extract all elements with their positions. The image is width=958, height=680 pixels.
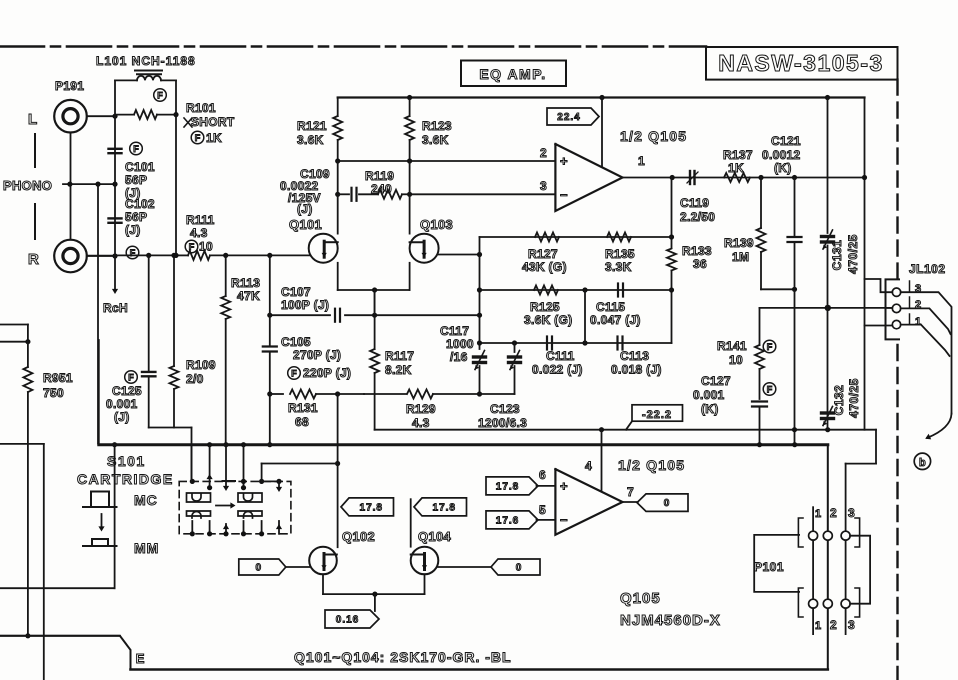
svg-text:R: R xyxy=(28,251,39,268)
JL102 cable wires to arrow xyxy=(901,292,952,413)
svg-text:C123: C123 xyxy=(490,402,520,416)
svg-text:0.047 (J): 0.047 (J) xyxy=(590,313,641,327)
svg-text:C125: C125 xyxy=(112,384,142,398)
svg-text:R133: R133 xyxy=(682,244,712,258)
svg-text:0.0012: 0.0012 xyxy=(762,148,801,162)
svg-text:P191: P191 xyxy=(55,79,84,93)
svg-text:(J): (J) xyxy=(125,223,141,237)
wire ground drop from phono xyxy=(97,184,99,443)
svg-text:C131: C131 xyxy=(830,240,844,271)
svg-text:1M: 1M xyxy=(732,250,749,264)
resistor R101 SHORT (F)1K xyxy=(115,114,134,116)
cable arrow xyxy=(927,414,951,438)
svg-text:R139: R139 xyxy=(724,236,754,250)
flag 0.16 at source xyxy=(325,610,379,628)
svg-text:3.6K: 3.6K xyxy=(297,133,324,147)
svg-text:1K: 1K xyxy=(728,161,744,175)
svg-text:C113: C113 xyxy=(620,349,649,363)
svg-text:1200/6.3: 1200/6.3 xyxy=(478,416,527,430)
switch S101 dashed body xyxy=(179,481,291,533)
svg-text:EQ AMP.: EQ AMP. xyxy=(479,66,546,82)
svg-text:0.16: 0.16 xyxy=(336,615,359,626)
resistor R131 68 xyxy=(270,393,283,395)
svg-text:22.4: 22.4 xyxy=(557,112,580,123)
svg-text:17.6: 17.6 xyxy=(496,516,519,527)
wire ladder middle rail xyxy=(480,289,672,291)
svg-text:17.8: 17.8 xyxy=(360,503,383,514)
svg-text:0.018 (J): 0.018 (J) xyxy=(611,363,662,377)
svg-text:R111: R111 xyxy=(186,213,215,227)
svg-text:1/2 Q105: 1/2 Q105 xyxy=(620,128,687,144)
icon arrow MC to MM xyxy=(101,514,103,528)
svg-text:1/2 Q105: 1/2 Q105 xyxy=(618,457,685,473)
svg-text:8.2K: 8.2K xyxy=(385,363,412,377)
svg-text:F: F xyxy=(157,90,163,100)
resistor R137 1K xyxy=(724,173,750,182)
wire L jack to node xyxy=(87,115,115,117)
svg-text:2.2/50: 2.2/50 xyxy=(680,210,715,224)
wire R101 node down to R111 line xyxy=(175,115,177,255)
wire op-amp pin3 line xyxy=(410,193,556,195)
svg-text:/16: /16 xyxy=(450,350,468,364)
wire bottom rail xyxy=(131,668,828,671)
wire jack column xyxy=(70,133,72,240)
capacitor C123 1200/6.3 electrolytic xyxy=(514,343,516,352)
svg-text:R951: R951 xyxy=(43,371,73,385)
wire Q103 source xyxy=(409,263,411,290)
svg-text:C127: C127 xyxy=(701,374,731,388)
label F circled (L101) xyxy=(154,89,167,102)
switch selector arrow xyxy=(216,505,232,507)
svg-text:MM: MM xyxy=(134,540,159,556)
wire feed pin2 (at y 307.9 handled) xyxy=(886,307,893,309)
svg-text:NASW-3105-3: NASW-3105-3 xyxy=(718,50,884,76)
wire ladder left column xyxy=(479,237,481,349)
svg-text:36: 36 xyxy=(693,257,707,271)
svg-text:F: F xyxy=(189,242,195,252)
wire ladder right column from output xyxy=(671,178,673,249)
svg-text:220P (J): 220P (J) xyxy=(303,366,351,380)
resistor R119 240 xyxy=(378,190,402,199)
flag 17.8 at Q104 drain xyxy=(414,498,467,516)
svg-text:−: − xyxy=(560,513,568,528)
svg-text:10: 10 xyxy=(199,240,213,254)
svg-text:L101 NCH-1188: L101 NCH-1188 xyxy=(96,54,196,68)
flag -22.2 supply xyxy=(632,405,683,421)
svg-text:3.6K: 3.6K xyxy=(422,133,449,147)
resistor R113 47K xyxy=(225,255,227,296)
wire op-amp pin2 line xyxy=(338,160,556,162)
wire left stub lower xyxy=(0,635,120,637)
svg-text:Q104: Q104 xyxy=(418,529,451,544)
capacitor C132 470/25 electrolytic xyxy=(822,411,834,414)
svg-text:0.001: 0.001 xyxy=(106,397,138,411)
svg-text:5: 5 xyxy=(539,503,546,517)
svg-text:6: 6 xyxy=(539,468,546,482)
wire Q101 drain column xyxy=(337,161,339,234)
svg-text:R125: R125 xyxy=(530,300,560,314)
wire +22.4 supply rail xyxy=(338,96,865,98)
capacitor C119 2.2/50 series xyxy=(689,171,691,184)
wire Q104 gate xyxy=(438,566,491,568)
wire R jack to node xyxy=(87,255,115,257)
capacitor C127 0.001 (K) xyxy=(752,400,767,402)
svg-text:240: 240 xyxy=(371,182,392,196)
svg-text:F: F xyxy=(130,248,136,258)
svg-text:Q105: Q105 xyxy=(620,590,661,607)
svg-text:0.001: 0.001 xyxy=(693,388,725,402)
JL102 pin 1 xyxy=(892,320,900,328)
svg-text:Q101~Q104: 2SK170-GR. -BL: Q101~Q104: 2SK170-GR. -BL xyxy=(294,649,512,665)
op-amp2 supply feed from -22.2 xyxy=(601,430,603,491)
svg-text:0: 0 xyxy=(516,563,523,574)
wire ladder top rail xyxy=(480,236,672,238)
resistor R125 3.6K (G) xyxy=(534,286,558,295)
svg-text:750: 750 xyxy=(43,386,64,400)
svg-text:CARTRIDGE: CARTRIDGE xyxy=(77,471,174,487)
switch contact top-right xyxy=(238,493,262,502)
svg-text:(J): (J) xyxy=(297,202,313,216)
wire feed pin1 xyxy=(865,325,893,327)
switch contact bottom-left xyxy=(187,511,211,518)
resistor R133 36 xyxy=(667,249,676,271)
svg-text:56P: 56P xyxy=(125,173,147,187)
wire pin6 xyxy=(537,485,556,487)
resistor R127 43K (G) xyxy=(535,233,559,242)
resistor R141 10 xyxy=(759,308,761,345)
wire Q103 drain column xyxy=(409,161,411,234)
svg-text:1: 1 xyxy=(815,508,821,520)
svg-text:56P: 56P xyxy=(125,210,147,224)
wire Q102 drain drop with jog to S101 xyxy=(337,394,339,464)
svg-text:R135: R135 xyxy=(605,247,635,261)
svg-text:C105: C105 xyxy=(281,335,311,349)
capacitor C125 0.001 (J) xyxy=(148,255,150,372)
JL102 bracket xyxy=(886,279,900,339)
op-amp U1 1/2 Q105 (pins 2,3,1) xyxy=(555,144,622,211)
svg-text:(J): (J) xyxy=(114,410,130,424)
svg-text:R123: R123 xyxy=(422,119,452,133)
svg-text:17.8: 17.8 xyxy=(496,482,519,493)
svg-text:R117: R117 xyxy=(385,349,414,363)
JL102 pin 2 xyxy=(892,304,900,312)
JL102 pin 3 xyxy=(892,288,900,296)
svg-text:C107: C107 xyxy=(281,285,311,299)
label box EQ AMP. xyxy=(461,61,566,87)
wire pin5 xyxy=(537,519,556,521)
wire Q101 source xyxy=(337,263,339,290)
svg-text:3.3K: 3.3K xyxy=(605,260,632,274)
svg-text:R131: R131 xyxy=(288,401,318,415)
resistor R135 3.3K xyxy=(607,233,631,242)
svg-text:2/0: 2/0 xyxy=(186,372,204,386)
svg-text:C101: C101 xyxy=(125,160,155,174)
svg-text:MC: MC xyxy=(134,492,158,508)
svg-text:F: F xyxy=(195,133,201,143)
flag 17.8 at Q102 drain xyxy=(341,498,394,516)
switch feed wires from ground rail xyxy=(209,445,211,478)
svg-text:3: 3 xyxy=(848,618,855,632)
wire earth E step xyxy=(0,636,131,670)
flag 0 output xyxy=(637,494,688,512)
wire op-amp1 output xyxy=(623,177,865,179)
svg-text:F: F xyxy=(133,144,139,154)
svg-text:F: F xyxy=(767,384,773,394)
icon MM cartridge xyxy=(83,545,117,547)
switch bottom pins xyxy=(191,521,193,534)
wire Q104 drain stub xyxy=(410,499,412,547)
svg-text:Q102: Q102 xyxy=(342,529,375,544)
svg-text:R121: R121 xyxy=(297,119,327,133)
svg-text:1000: 1000 xyxy=(446,337,474,351)
svg-text:10: 10 xyxy=(729,353,743,367)
wire pin2/output line to JL102 xyxy=(760,307,894,309)
transistor Q104 2SK170 xyxy=(411,547,439,575)
op-amp supply feed xyxy=(601,98,603,167)
svg-text:−: − xyxy=(560,188,568,203)
svg-text:R129: R129 xyxy=(406,402,436,416)
svg-text:R119: R119 xyxy=(365,169,394,183)
svg-text:R101: R101 xyxy=(186,101,216,115)
svg-text:0.022 (J): 0.022 (J) xyxy=(532,363,583,377)
resistor R111 4.3 (F)10 xyxy=(176,254,188,256)
svg-text:1: 1 xyxy=(638,154,645,168)
svg-text:RcH: RcH xyxy=(103,301,128,315)
svg-text:100P (J): 100P (J) xyxy=(281,298,329,312)
net RcH xyxy=(114,256,116,291)
dashed board border right xyxy=(896,80,898,279)
svg-text:F: F xyxy=(767,342,773,352)
svg-text:43K (G): 43K (G) xyxy=(522,260,567,274)
capacitor C109 0.0022/125V xyxy=(338,193,349,195)
wire left stub upper xyxy=(0,443,44,445)
flag 0 at Q104 gate xyxy=(491,559,540,575)
wire ladder mid divider xyxy=(584,290,586,343)
wire left stub mid xyxy=(0,587,115,589)
svg-text:0: 0 xyxy=(256,563,263,574)
svg-text:R137: R137 xyxy=(723,148,753,162)
phono jack R xyxy=(54,240,87,273)
wire Q103 gate xyxy=(439,254,480,256)
capacitor C101 56P xyxy=(114,116,116,184)
svg-text:C115: C115 xyxy=(596,300,625,314)
wire R131 to R129 xyxy=(364,393,406,395)
svg-text:470/25: 470/25 xyxy=(847,378,861,418)
svg-text:1K: 1K xyxy=(206,131,222,145)
capacitor C105 270P/220P xyxy=(269,255,271,345)
svg-text:270P (J): 270P (J) xyxy=(293,348,341,362)
flag 0 at Q102 gate xyxy=(239,559,286,575)
svg-text:C117: C117 xyxy=(440,324,469,338)
svg-text:F: F xyxy=(291,368,297,378)
phono jack L xyxy=(54,100,87,133)
flag +22.4 supply xyxy=(547,108,599,125)
dashed board border top xyxy=(0,45,706,48)
switch contact bottom-right xyxy=(238,511,262,518)
wire -22.2 to P101 pin3 branch xyxy=(875,430,877,464)
svg-text:NJM4560D-X: NJM4560D-X xyxy=(620,612,721,629)
svg-text:C121: C121 xyxy=(771,134,801,148)
svg-text:68: 68 xyxy=(295,415,309,429)
svg-text:3: 3 xyxy=(915,283,921,295)
wire feed pin3 xyxy=(865,279,893,292)
wire ground rail right drop xyxy=(827,445,829,670)
capacitor C102 56P xyxy=(114,184,116,256)
resistor R139 1M xyxy=(760,178,762,229)
resistor R109 270 xyxy=(173,255,175,366)
wire right vertical feed xyxy=(864,98,866,430)
title block NASW-3105-3 xyxy=(706,47,898,80)
wire S101 feed left (R109/C125 node) xyxy=(191,445,193,482)
P101 right link xyxy=(850,536,870,604)
capacitor C107 100P (J) xyxy=(270,314,330,316)
wire Q102 gate xyxy=(286,566,309,568)
op-amp U2 1/2 Q105 (pins 5,6,7,4) xyxy=(555,469,622,535)
svg-text:2: 2 xyxy=(830,506,837,520)
svg-text:C119: C119 xyxy=(680,196,709,210)
svg-text:17.8: 17.8 xyxy=(433,503,456,514)
resistor R123 3.6K xyxy=(409,98,411,117)
switch right pole xyxy=(262,480,279,482)
transistor Q102 2SK170 xyxy=(309,547,337,575)
capacitor C121 0.0012 xyxy=(794,178,796,237)
svg-text:4.3: 4.3 xyxy=(190,226,208,240)
svg-text:3: 3 xyxy=(540,179,547,193)
wire R109 C125 to switch feed xyxy=(149,427,192,429)
wire differential tail xyxy=(338,289,410,291)
svg-text:R141: R141 xyxy=(717,339,747,353)
svg-text:7: 7 xyxy=(627,485,634,499)
capacitor C111 0.022 (J) xyxy=(546,337,548,350)
wire source join xyxy=(323,593,425,595)
P101 housing brackets xyxy=(798,518,803,547)
capacitor C113 0.018 (J) xyxy=(616,337,618,350)
svg-text:R109: R109 xyxy=(186,358,216,372)
svg-text:SHORT: SHORT xyxy=(191,115,235,129)
svg-text:2: 2 xyxy=(540,146,547,160)
svg-text:3.6K (G): 3.6K (G) xyxy=(524,313,572,327)
svg-text:0: 0 xyxy=(664,498,671,509)
P101 pin column 1 xyxy=(812,507,814,531)
flag 17.6 pin5 xyxy=(486,511,538,529)
svg-text:+: + xyxy=(560,479,568,494)
wire gate line (R input to Q101) xyxy=(87,255,115,257)
P101 pin column 2 (on ground drop) xyxy=(823,531,832,540)
svg-text:C102: C102 xyxy=(125,197,155,211)
wire ladder bottom rail xyxy=(480,342,672,344)
P101 pin column 3 xyxy=(841,531,850,540)
wire Q104 source xyxy=(424,574,426,594)
svg-text:470/25: 470/25 xyxy=(846,234,860,274)
phono channel dashes xyxy=(34,134,36,167)
capacitor C131 470/25 electrolytic xyxy=(827,98,829,234)
svg-text:P101: P101 xyxy=(754,560,784,574)
svg-text:C132: C132 xyxy=(832,385,846,416)
svg-text:2: 2 xyxy=(830,618,837,632)
resistor R117 8.2K xyxy=(374,290,376,349)
wire -22.2 supply rail xyxy=(375,429,876,431)
svg-text:4: 4 xyxy=(585,459,592,473)
resistor R951 750 xyxy=(0,324,28,326)
svg-text:(K): (K) xyxy=(774,161,792,175)
svg-text:F: F xyxy=(128,372,134,382)
svg-text:(K): (K) xyxy=(701,402,719,416)
label circled b xyxy=(914,453,930,469)
svg-text:R127: R127 xyxy=(528,247,558,261)
switch contact top-left xyxy=(187,493,211,502)
wire rail drop left xyxy=(114,444,116,589)
resistor R121 3.6K xyxy=(337,98,339,117)
svg-text:E: E xyxy=(136,651,145,666)
svg-text:+: + xyxy=(560,154,568,169)
wire Q102 source xyxy=(322,574,324,594)
svg-text:PHONO: PHONO xyxy=(3,178,52,193)
wire pin7 output xyxy=(623,501,638,503)
svg-text:1: 1 xyxy=(915,316,921,328)
svg-text:4.3: 4.3 xyxy=(412,416,430,430)
wire main ground rail xyxy=(99,443,828,446)
resistor R129 4.3 xyxy=(407,390,433,399)
icon MC cartridge xyxy=(83,506,117,508)
svg-text:1: 1 xyxy=(815,620,821,632)
svg-text:JL102: JL102 xyxy=(909,262,946,276)
svg-text:L: L xyxy=(28,111,37,128)
flag 17.8 pin6 xyxy=(486,477,538,495)
svg-text:Q103: Q103 xyxy=(420,217,453,232)
svg-text:b: b xyxy=(919,457,926,469)
svg-text:C111: C111 xyxy=(546,349,575,363)
svg-text:-22.2: -22.2 xyxy=(642,409,672,421)
svg-text:R113: R113 xyxy=(231,276,260,290)
wire phono ground tap xyxy=(63,183,115,185)
svg-text:47K: 47K xyxy=(237,289,260,303)
capacitor C115 0.047 (J) xyxy=(617,284,619,297)
svg-text:S101: S101 xyxy=(107,453,146,469)
svg-text:Q101: Q101 xyxy=(289,217,322,232)
svg-text:3: 3 xyxy=(848,506,855,520)
